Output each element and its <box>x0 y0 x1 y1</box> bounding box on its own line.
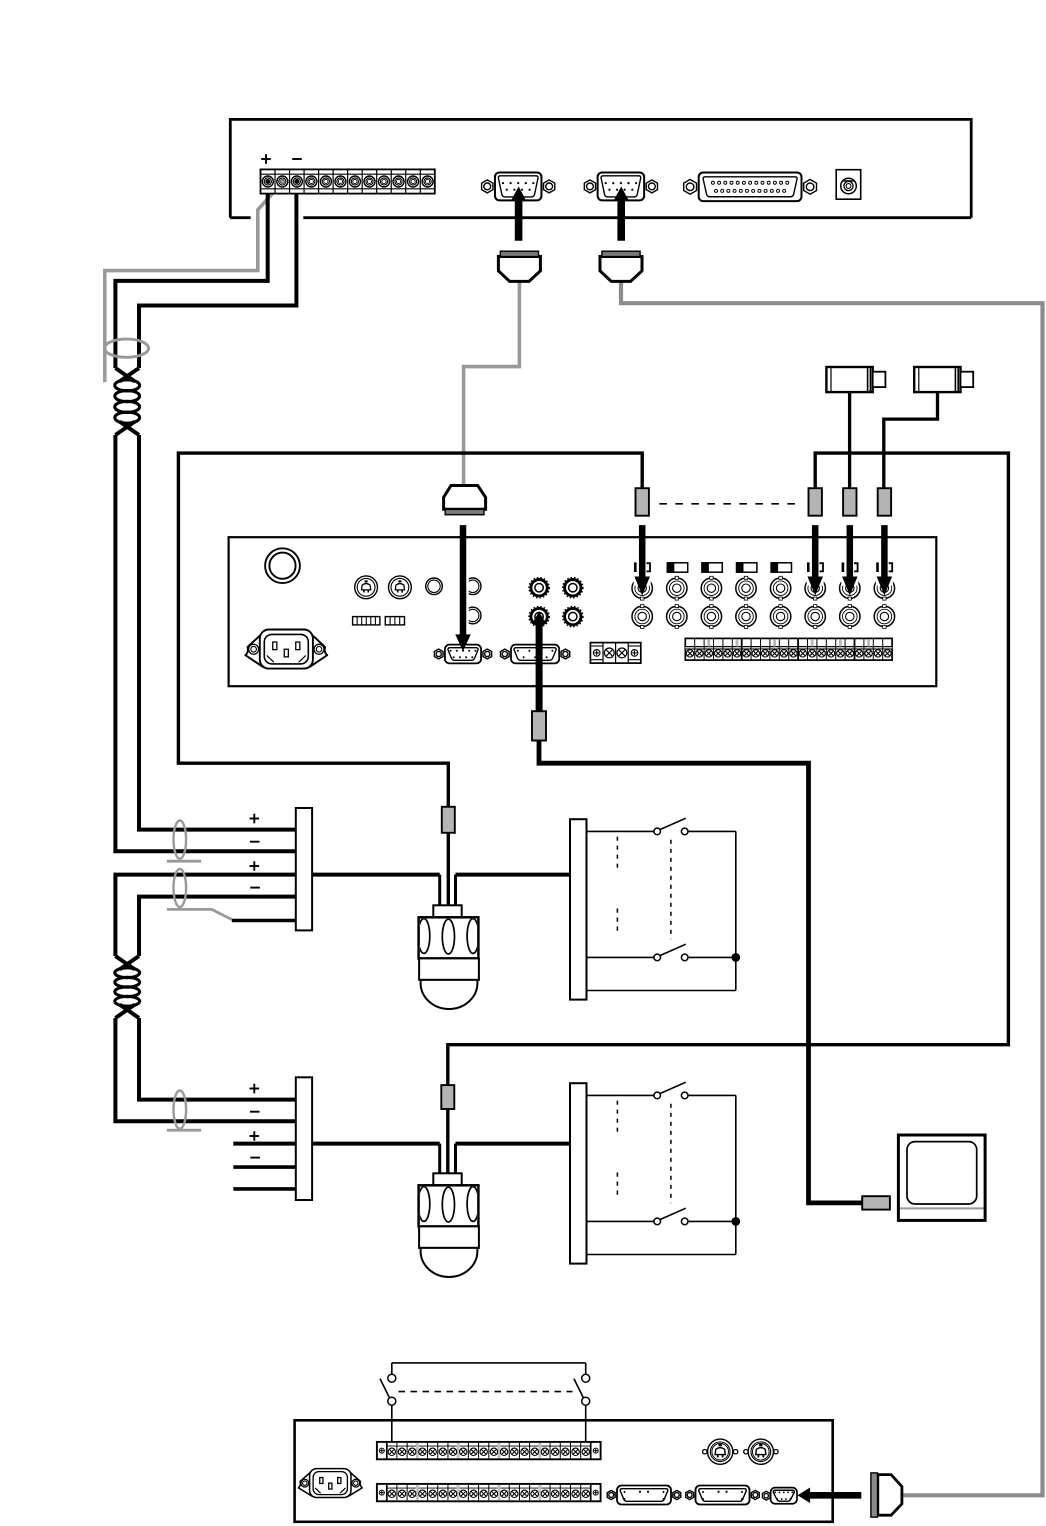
monitor video plug below device <box>532 711 546 740</box>
bottom controller box <box>295 1420 833 1522</box>
stub wire bar 2 row 3 <box>233 1142 295 1146</box>
wire video plug to dome 2 connector <box>446 1108 449 1174</box>
label - row4 bar1 <box>250 887 260 889</box>
wire from switch 1 to right rail <box>688 1094 736 1096</box>
fan opening <box>265 548 300 583</box>
alarm switch box 2 <box>570 1082 740 1263</box>
BNC plug col 6 <box>809 488 822 516</box>
speed dome camera mount block <box>433 905 461 917</box>
wire box camera 2 to BNC plug 8 <box>884 392 938 489</box>
speed dome camera collar band <box>419 1226 479 1248</box>
alarm switch 2 contacts <box>654 1218 661 1225</box>
DB9 keyboard port bottom <box>771 1488 797 1504</box>
alarm switch 2 contacts <box>654 954 661 961</box>
AC inlet bottom device <box>298 1471 312 1496</box>
wire from switch 2 to junction dot <box>688 1220 736 1222</box>
alarm switch bottom contact wire <box>587 1220 654 1222</box>
gray serial cable from hood B down right edge to bottom device <box>621 278 1043 1495</box>
gray serial cable from hood A to keyboard hood <box>464 278 520 487</box>
label - PSU terminal 3 <box>292 158 302 160</box>
speed dome camera dome bubble <box>421 980 478 1009</box>
BNC video out 6 bottom row <box>805 606 825 626</box>
arrow plug into DB9 T2 <box>614 187 629 241</box>
terminal strip lower <box>377 1484 601 1501</box>
wire junction bar 1 row 4 to twisted pair 2 <box>139 897 296 956</box>
BNC plug col 8 <box>878 488 891 516</box>
BNC video in 8 top row <box>874 578 894 598</box>
keyboard DB9 hood side view <box>878 1475 902 1516</box>
BNC indicator col 3 <box>702 563 722 572</box>
speed dome camera 2 <box>418 1173 479 1277</box>
DIP switch block 4 <box>385 617 404 625</box>
label + row3 bar2 <box>250 1135 260 1137</box>
RS-485 port DB9 T2 <box>584 180 595 193</box>
wire pair 2 left conductor to junction bar 2 row 2 <box>115 1018 295 1121</box>
alarm switch 1 contacts <box>654 1092 661 1099</box>
gray pass-through ring pair at bar 2 <box>174 1091 187 1129</box>
right rail wire <box>735 831 737 990</box>
DB25 port 2 bottom <box>686 1490 694 1499</box>
wire video coax from monitor-out BNC 1 to dome camera 1 <box>178 453 642 807</box>
audio jack pair upper <box>464 578 481 595</box>
bottom return wire <box>587 990 736 992</box>
4-terminal block <box>590 643 640 664</box>
RS-232 DB9 M1 <box>434 649 443 659</box>
speed dome camera 1 <box>418 905 479 1009</box>
dashed continuation line between BNC plugs <box>659 503 798 505</box>
wire video plug to dome 1 connector <box>447 832 450 906</box>
BNC indicator col 8 <box>876 562 879 572</box>
RCA jack D <box>563 606 583 626</box>
relay switch 1 <box>391 1363 393 1374</box>
stub wire bar 2 row 5 <box>233 1187 295 1191</box>
terminal strip upper <box>377 1442 601 1459</box>
box camera body <box>826 367 872 392</box>
S-video out 1 bottom <box>703 1450 707 1454</box>
BNC video out 8 bottom row <box>874 606 894 626</box>
BNC video out 7 bottom row <box>840 606 860 626</box>
BNC video out 1 bottom row <box>632 606 652 626</box>
BNC indicator col 5 <box>771 563 791 572</box>
bottom return wire <box>587 1254 736 1256</box>
relay wire top link <box>392 1362 586 1364</box>
twisted pair symbol 2 <box>115 956 134 969</box>
relay switch 2 <box>585 1363 587 1374</box>
wire pair 2 right conductor to junction bar 2 row 1 <box>139 1018 296 1100</box>
gray shield drain stub bar 2 <box>167 1129 201 1132</box>
BNC plug col 1 <box>636 488 649 516</box>
wire pair 1 right conductor down to junction bar 1 row 1 <box>139 435 296 830</box>
wire dome 1 drop right <box>454 875 457 906</box>
wire dome 1 drop left <box>438 875 441 906</box>
speed dome camera collar band <box>419 958 479 980</box>
BNC video in 6 top row <box>805 578 825 598</box>
arrow BNC 6 <box>807 525 823 595</box>
BNC video in 2 top row <box>667 578 687 598</box>
wire monitor video from MON jack to monitor <box>539 740 863 1203</box>
speed dome camera body <box>419 917 479 958</box>
gray loop ring around pair at top <box>105 339 149 357</box>
PSU / controller unit box <box>230 119 971 217</box>
alarm switch box mounting bar <box>570 1083 587 1263</box>
alarm switch top contact wire <box>587 1094 654 1096</box>
wire pair 1 left conductor down to junction bar 1 row 2 <box>115 435 295 851</box>
ellipsis dashed line left <box>616 837 618 872</box>
wire control bus junction bar 1 to dome 1 and alarm box 1 <box>312 873 440 877</box>
wire dome 2 drop right <box>454 1144 457 1174</box>
RCA jack MON (arrow target) <box>529 606 549 626</box>
twisted pair symbol 1 <box>115 368 134 381</box>
junction bar 1 <box>296 808 312 930</box>
wire junction bar 1 row 3 to twisted pair 2 <box>115 875 295 956</box>
BNC indicator col 7 <box>842 562 845 572</box>
box camera lens <box>961 372 974 387</box>
DB9 cable hood shell <box>498 257 540 282</box>
right rail wire <box>735 1095 737 1254</box>
BNC video in 7 top row <box>840 578 860 598</box>
BNC video out 2 bottom row <box>667 606 687 626</box>
arrow plug into DB9 M1 <box>455 525 471 651</box>
BNC video out 5 bottom row <box>770 606 790 626</box>
matrix switcher / DVR back panel box <box>229 537 937 686</box>
alarm switch top contact wire <box>587 830 654 832</box>
BNC video in 3 top row <box>701 578 721 598</box>
arrow plug into keyboard DB9 <box>798 1488 862 1504</box>
alarm terminal strip 22 <box>685 638 892 660</box>
BNC indicator col 4 <box>737 563 757 572</box>
arrow plug into RCA MON <box>532 612 547 712</box>
label + row1 bar2 <box>250 1088 260 1090</box>
BNC indicator col 1 <box>634 562 637 572</box>
wire dome 2 drop left <box>438 1144 441 1174</box>
relay dashed ellipsis <box>399 1391 573 1393</box>
gray shield drain stub pair 1 <box>167 860 201 863</box>
alarm switch 1 contacts <box>654 828 661 835</box>
AC inlet middle device <box>245 633 262 667</box>
arrow BNC 1 <box>634 525 650 595</box>
audio jack small <box>426 578 443 595</box>
BNC indicator col 6 <box>807 562 810 572</box>
alarm switch bottom contact wire <box>587 956 654 958</box>
monitor screen <box>907 1142 977 1204</box>
white clearance around DB9 M1 arrow <box>457 542 469 630</box>
DIP switch block 6 <box>353 617 380 625</box>
junction dot <box>731 1217 740 1226</box>
arrow plug into DB9 T1 <box>511 187 525 241</box>
RS-232 DB9 M2 <box>500 649 509 659</box>
S-video out 2 bottom <box>744 1450 748 1454</box>
gray shield drain wire pair 2 to bar row 5 <box>167 909 232 919</box>
speed dome camera dome bubble <box>421 1248 478 1277</box>
ellipsis dashed line left <box>616 1101 618 1136</box>
alarm switch box mounting bar <box>570 819 587 999</box>
wire from switch 2 to junction dot <box>688 956 736 958</box>
DB25 parallel port <box>684 179 697 194</box>
wire shield stub to junction bar 1 row 5 <box>232 919 296 923</box>
BNC indicator col 2 <box>667 563 687 572</box>
label + PSU terminal 1 <box>261 158 271 160</box>
wire from switch 1 to right rail <box>688 830 736 832</box>
stub wire bar 2 row 4 <box>233 1165 295 1169</box>
monitor plug <box>862 1196 890 1209</box>
label + row1 bar1 <box>250 818 260 820</box>
junction dot <box>731 953 740 962</box>
label + row3 bar1 <box>250 865 260 867</box>
gray shield wire from PSU terminal 2 <box>105 183 282 382</box>
DB9 hood above M1 <box>444 486 486 510</box>
audio jack pair lower <box>464 607 481 624</box>
RS-485 port DB9 T1 <box>482 180 493 193</box>
gray pass-through ring pair 2 <box>174 869 187 907</box>
BNC video in 1 top row <box>632 578 652 598</box>
box camera body <box>914 367 960 392</box>
video plug above dome 2 <box>441 1085 454 1109</box>
monitor base line <box>900 1207 984 1209</box>
label - row2 bar2 <box>250 1111 260 1113</box>
wire ends in terminals 1-3 <box>266 179 270 183</box>
BNC video out 3 bottom row <box>701 606 721 626</box>
label - row2 bar1 <box>250 841 260 843</box>
DB9 cable hood shell <box>600 257 642 282</box>
alarm switch box 1 <box>570 818 740 999</box>
wire PSU + terminal to twisted pair 1 <box>115 183 267 368</box>
S-video jack 2 <box>389 576 412 599</box>
wire box camera 1 to BNC plug 7 <box>848 392 851 489</box>
RCA jack B <box>563 578 583 598</box>
BNC video in 5 top row <box>770 578 790 598</box>
gray pass-through ring pair 1 <box>174 821 187 859</box>
label - row4 bar2 <box>250 1157 260 1159</box>
wire PSU - terminal to twisted pair 1 <box>139 183 296 368</box>
DC power jack <box>836 170 861 200</box>
speed dome camera body <box>419 1185 479 1226</box>
arrow BNC 7 <box>842 525 858 595</box>
S-video jack 1 <box>355 576 378 599</box>
DB25 port 1 bottom <box>607 1490 615 1499</box>
arrow BNC 8 <box>877 525 893 595</box>
wire video coax from BNC 6 to dome camera 2 <box>448 453 1009 1086</box>
box camera lens <box>873 372 886 387</box>
junction bar 2 <box>296 1077 312 1200</box>
wire control bus junction bar 2 to dome 2 and alarm box 2 <box>312 1142 440 1146</box>
ellipsis dashed line right <box>670 840 672 939</box>
BNC plug col 7 <box>843 488 856 516</box>
ellipsis dashed line right <box>670 1104 672 1203</box>
video plug above dome 1 <box>442 807 455 833</box>
RCA jack A <box>529 578 549 598</box>
speed dome camera mount block <box>433 1173 461 1185</box>
BNC video out 4 bottom row <box>736 606 756 626</box>
BNC video in 4 top row <box>736 578 756 598</box>
monitor body <box>898 1135 985 1220</box>
PSU screw terminal block <box>261 169 435 193</box>
